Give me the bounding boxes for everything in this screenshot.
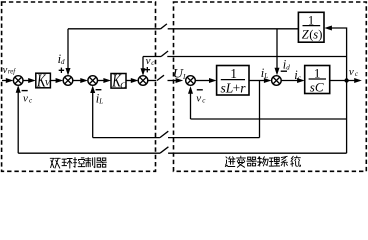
svg-text:sC: sC [310,80,324,95]
summing junction S2 [63,76,73,86]
wire id drop into S2 [67,29,69,70]
变 [237,156,246,167]
wire block C to output [330,80,355,82]
svg-text:C: C [120,80,126,90]
switch lever main row [157,75,164,80]
wire block L to S6 [249,80,265,82]
wire input vref [2,80,7,82]
plant dashed box [174,2,367,171]
minus sign S3 [96,89,102,91]
wire id drop into S6 [276,29,278,69]
环 [62,159,72,169]
控 [74,158,85,168]
wire Z output to left, segment to switch [168,28,299,30]
block 1/(sL+r) [217,66,249,96]
制 [85,158,94,168]
wire KC to S4 [126,80,132,82]
iL tap [259,81,261,138]
wire vc drop into S4 [142,57,144,70]
summing junction S6 [272,76,282,86]
block KV [36,73,51,88]
wire S6 to block C [281,80,298,82]
wire node down [346,81,348,154]
逆 [225,157,235,167]
wire vc feedback bottom: left with switch, up into S1 [168,152,347,154]
理 [269,157,279,166]
双 [50,158,60,168]
switch lever line y56 [161,51,168,57]
switch lever iL line [160,131,168,137]
wire iL feedback: down, left with switch, up into S3 [168,137,260,139]
wire KV to S2 [50,80,57,82]
summing junction S5 [186,76,196,86]
wire S3 to KC [98,80,105,82]
svg-text:): ) [318,27,322,41]
controller dashed box [2,2,156,171]
wire top line switch to corner at S2 [68,28,161,30]
summing junction S4 [138,76,148,86]
svg-text:v: v [349,66,354,78]
svg-text:r: r [240,81,246,96]
block KC [111,74,126,89]
node vc dot [344,78,348,82]
wire S1 to KV [23,80,29,82]
物 [258,157,269,166]
svg-text:ref: ref [8,69,16,76]
器 [97,158,107,167]
系 [281,156,287,166]
svg-text:v: v [23,92,28,104]
label dual-loop controller (hand-drawn hanzi) [50,158,106,169]
summing junction S1 [13,76,23,86]
block 1/Z(s) [298,12,324,42]
wire line y56 left segment to corner S4 [143,56,161,58]
svg-text:v: v [196,92,201,104]
wire S4 to switch [148,80,157,82]
svg-text:L: L [263,72,268,80]
svg-text:d: d [61,58,65,66]
plus sign S4 [145,67,150,72]
器 [247,157,256,166]
plus sign S2 [59,68,64,73]
svg-text:L: L [98,98,103,106]
minus sign S1 [22,90,28,92]
统 [291,156,301,166]
svg-text:sL: sL [221,81,234,96]
wire vc feedforward line y56 right segment [167,56,346,58]
svg-text:1: 1 [230,66,237,81]
svg-text:+: + [233,81,241,96]
summing junction S3 [88,76,98,86]
wire S2 to S3 [73,80,82,82]
minus sign S6 [281,70,287,72]
wire S5 to block L [195,80,210,82]
wire switch to S5 [168,80,178,82]
minus sign S5 [197,89,203,91]
wire node up to Z input [331,28,347,81]
wire vc to S5 (back-emf) [190,93,192,120]
block 1/(sC) [305,66,330,94]
switch lever vc bottom line [160,147,168,153]
svg-text:v: v [3,65,8,76]
label inverter physical system (hand-drawn hanzi) [225,156,300,167]
switch lever top line [161,24,167,29]
